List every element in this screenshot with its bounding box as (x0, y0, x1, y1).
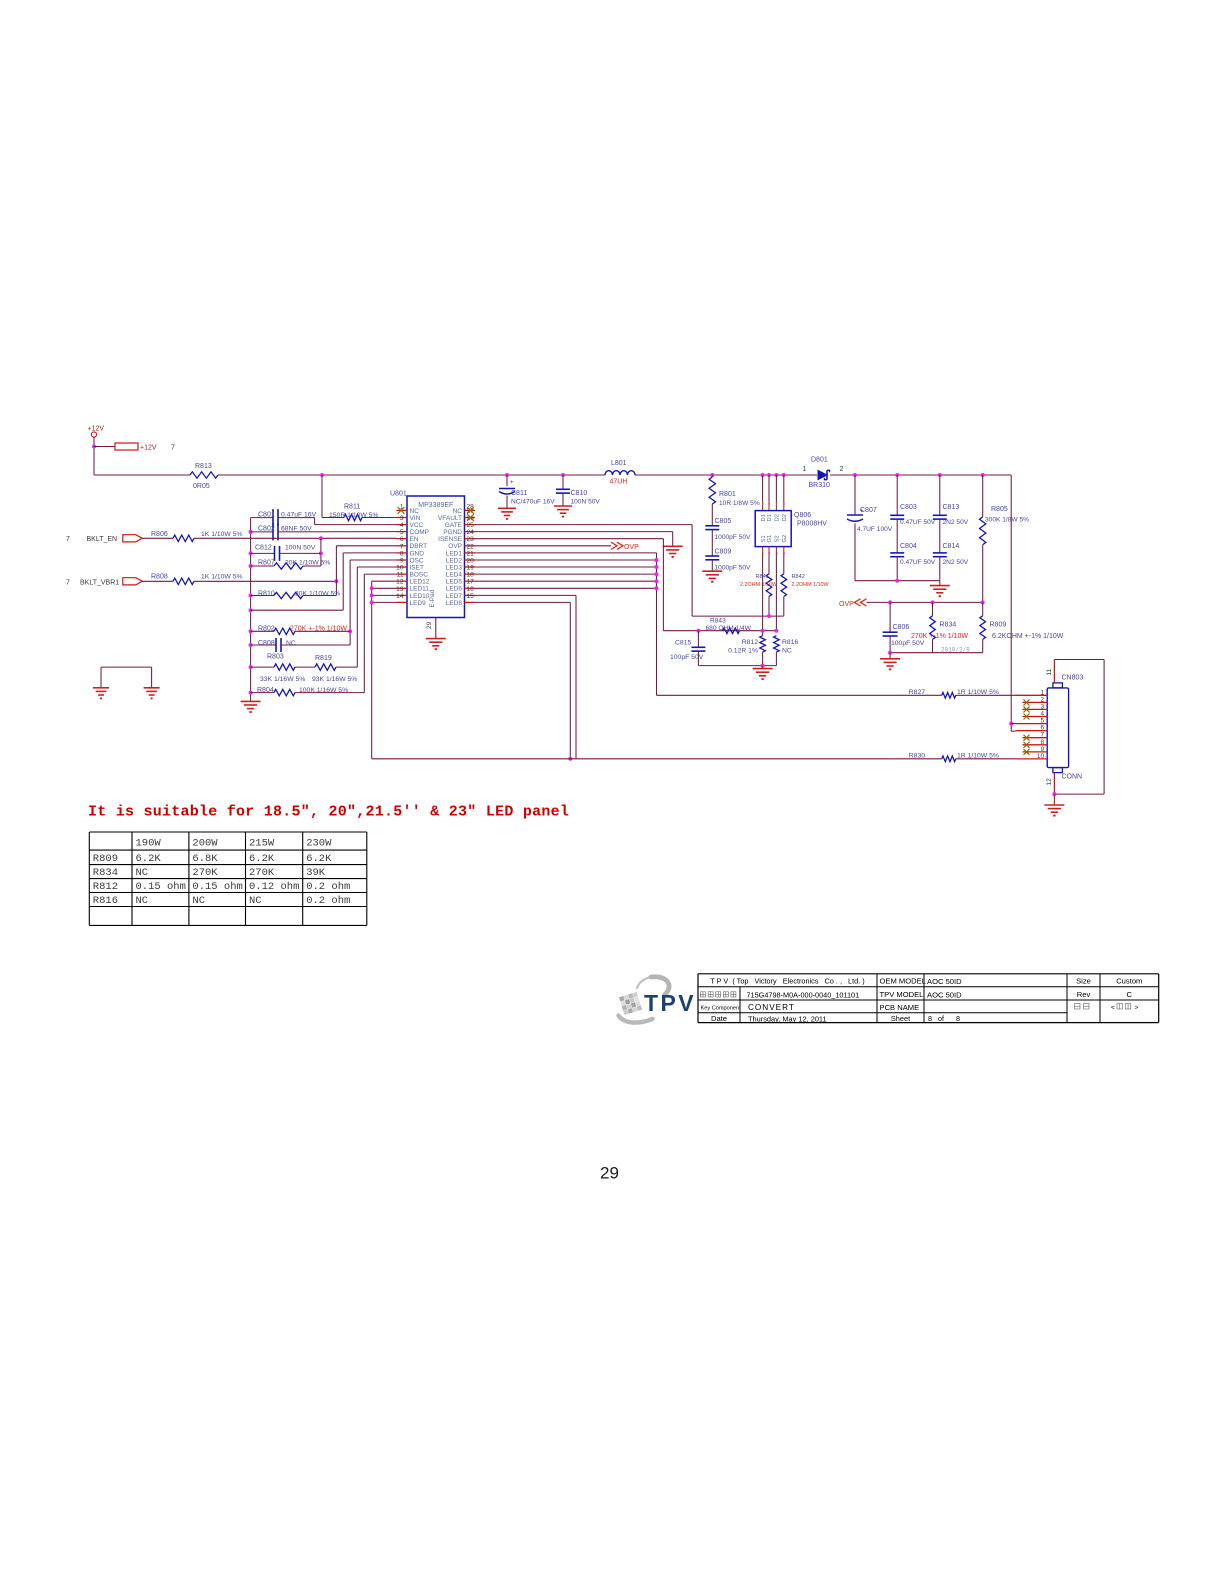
svg-text:C: C (1127, 990, 1133, 999)
svg-text:33K 1/16W 5%: 33K 1/16W 5% (260, 676, 305, 683)
svg-text:E-Pad: E-Pad (429, 589, 436, 607)
svg-text:16: 16 (467, 586, 475, 593)
svg-text:R804: R804 (257, 687, 274, 694)
svg-text:R834: R834 (93, 867, 118, 879)
svg-text:TPV MODEL: TPV MODEL (880, 990, 924, 999)
svg-text:6: 6 (1040, 725, 1044, 732)
svg-text:6.2K: 6.2K (306, 853, 332, 865)
svg-text:2N2 50V: 2N2 50V (943, 519, 969, 526)
svg-text:680 OHM 1/4W: 680 OHM 1/4W (706, 625, 752, 632)
svg-text:7: 7 (1040, 732, 1044, 739)
svg-text:R805: R805 (991, 506, 1008, 513)
svg-text:25: 25 (467, 522, 475, 529)
svg-text:R809: R809 (93, 853, 118, 865)
svg-text:R819: R819 (315, 655, 332, 662)
svg-text:Key Component: Key Component (701, 1005, 742, 1011)
svg-text:10: 10 (1037, 753, 1045, 760)
svg-text:MP3389EF: MP3389EF (418, 502, 453, 509)
svg-text:R816: R816 (93, 895, 118, 907)
svg-text:R809: R809 (990, 622, 1007, 629)
svg-text:+12V: +12V (88, 426, 105, 433)
svg-text:BKLT_EN: BKLT_EN (87, 536, 118, 543)
svg-text:LED9: LED9 (410, 600, 427, 607)
svg-text:R843: R843 (710, 618, 726, 625)
svg-text:R812: R812 (742, 639, 758, 646)
svg-text:VFAULT: VFAULT (438, 515, 462, 522)
svg-text:C804: C804 (900, 543, 917, 550)
svg-text:LED8: LED8 (446, 600, 463, 607)
svg-text:EN: EN (410, 536, 419, 543)
svg-text:190W: 190W (136, 838, 162, 850)
svg-text:R810: R810 (258, 591, 275, 598)
svg-text:T P V ( Top Victory Elect: T P V ( Top Victory Electronics Co . , L… (710, 977, 864, 986)
svg-text:G1: G1 (767, 535, 773, 543)
svg-text:1: 1 (1040, 689, 1044, 696)
svg-text:>: > (1135, 1005, 1139, 1012)
svg-text:715G4798-M0A-000-0040_101101: 715G4798-M0A-000-0040_101101 (747, 991, 860, 1000)
svg-text:270K: 270K (249, 867, 275, 879)
svg-text:C814: C814 (943, 543, 960, 550)
svg-text:13: 13 (396, 586, 404, 593)
svg-text:150R 1/10W 5%: 150R 1/10W 5% (329, 512, 379, 519)
svg-text:LED11: LED11 (410, 586, 430, 593)
svg-text:R801: R801 (719, 491, 736, 498)
svg-text:R808: R808 (151, 574, 168, 581)
svg-text:R803: R803 (267, 654, 284, 661)
svg-text:300K 1/8W 5%: 300K 1/8W 5% (985, 517, 1029, 524)
svg-text:LED10: LED10 (410, 593, 430, 600)
svg-text:+12V: +12V (140, 445, 157, 452)
svg-text:5: 5 (1040, 718, 1044, 725)
svg-text:11: 11 (1046, 668, 1053, 675)
svg-text:D1: D1 (761, 514, 767, 521)
svg-text:12: 12 (396, 579, 404, 586)
svg-text:270K +-1% 1/10W: 270K +-1% 1/10W (911, 633, 968, 640)
svg-text:5: 5 (762, 501, 765, 506)
svg-text:+: + (510, 480, 514, 486)
svg-text:39K: 39K (306, 867, 326, 879)
svg-text:Size: Size (1076, 977, 1091, 986)
svg-text:20: 20 (467, 558, 475, 565)
svg-text:GND: GND (410, 550, 425, 557)
svg-text:LED1: LED1 (446, 550, 463, 557)
svg-text:U801: U801 (390, 491, 407, 498)
svg-text:TPV: TPV (644, 990, 696, 1016)
svg-text:D2: D2 (782, 514, 788, 521)
svg-text:15: 15 (467, 593, 475, 600)
svg-text:22: 22 (467, 543, 475, 550)
svg-text:1R 1/10W 5%: 1R 1/10W 5% (957, 753, 999, 760)
svg-text:L801: L801 (611, 460, 627, 467)
svg-text:93K 1/16W 5%: 93K 1/16W 5% (312, 676, 357, 683)
svg-text:OEM MODEL: OEM MODEL (880, 977, 926, 986)
svg-text:4: 4 (1040, 711, 1044, 718)
svg-text:DBRT: DBRT (410, 543, 428, 550)
svg-text:OVP: OVP (448, 543, 462, 550)
svg-text:LED6: LED6 (446, 586, 463, 593)
svg-text:ISENSE: ISENSE (438, 536, 463, 543)
svg-text:20K 1/10W 5%: 20K 1/10W 5% (295, 591, 340, 598)
svg-text:8: 8 (783, 501, 786, 506)
svg-text:VIN: VIN (410, 515, 421, 522)
svg-text:C808: C808 (258, 640, 275, 647)
svg-text:7: 7 (400, 543, 404, 550)
svg-text:14: 14 (396, 593, 404, 600)
svg-text:C803: C803 (900, 504, 917, 511)
svg-text:R842: R842 (792, 574, 805, 580)
svg-text:LED5: LED5 (446, 579, 463, 586)
svg-text:PCB NAME: PCB NAME (880, 1003, 920, 1012)
svg-text:C815: C815 (675, 640, 691, 647)
svg-text:C801: C801 (258, 512, 275, 519)
svg-text:Q806: Q806 (794, 512, 811, 519)
svg-text:215W: 215W (249, 838, 275, 850)
svg-text:VCC: VCC (410, 522, 424, 529)
svg-text:2.2OHM 1/10W: 2.2OHM 1/10W (740, 582, 778, 588)
svg-text:0.2 ohm: 0.2 ohm (306, 895, 350, 907)
svg-text:C806: C806 (893, 624, 910, 631)
svg-text:270K: 270K (192, 867, 218, 879)
svg-text:R811: R811 (344, 504, 360, 511)
svg-text:NC: NC (136, 895, 149, 907)
svg-text:COMP: COMP (410, 529, 430, 536)
svg-text:100N 50V: 100N 50V (285, 545, 316, 552)
svg-text:9: 9 (400, 558, 404, 565)
svg-text:R841: R841 (756, 574, 769, 580)
svg-text:CN803: CN803 (1062, 675, 1084, 682)
svg-text:6: 6 (400, 536, 404, 543)
svg-text:0.12 ohm: 0.12 ohm (249, 881, 299, 893)
svg-text:R816: R816 (782, 639, 798, 646)
svg-text:20K 1/10W 5%: 20K 1/10W 5% (285, 560, 330, 567)
svg-text:0.2 ohm: 0.2 ohm (306, 881, 350, 893)
svg-text:12: 12 (1046, 778, 1053, 786)
svg-text:ISET: ISET (410, 564, 424, 571)
svg-text:G2: G2 (782, 535, 788, 543)
svg-text:BR310: BR310 (809, 482, 831, 489)
svg-text:1: 1 (803, 466, 807, 473)
svg-text:PGND: PGND (443, 529, 462, 536)
svg-text:24: 24 (467, 529, 475, 536)
svg-text:1000pF 50V: 1000pF 50V (715, 534, 752, 541)
svg-text:LED12: LED12 (410, 579, 430, 586)
svg-text:NC: NC (410, 508, 420, 515)
svg-text:29: 29 (426, 621, 433, 629)
svg-text:OSC: OSC (410, 557, 424, 564)
svg-text:CONN: CONN (1062, 774, 1083, 781)
svg-text:AOC 50ID: AOC 50ID (927, 977, 962, 986)
svg-text:R827: R827 (909, 689, 925, 696)
svg-text:D801: D801 (811, 457, 828, 464)
svg-text:OVP: OVP (624, 544, 639, 551)
svg-text:1K 1/10W 5%: 1K 1/10W 5% (201, 531, 243, 538)
svg-text:0.12R 1%: 0.12R 1% (728, 648, 758, 655)
svg-text:LED7: LED7 (446, 593, 463, 600)
svg-text:2N2 50V: 2N2 50V (943, 559, 969, 566)
svg-text:R806: R806 (151, 531, 168, 538)
svg-text:C813: C813 (943, 504, 960, 511)
svg-text:7: 7 (66, 580, 70, 587)
svg-text:0.47UF 50V: 0.47UF 50V (900, 519, 936, 526)
svg-text:Custom: Custom (1116, 977, 1142, 986)
svg-text:8: 8 (1040, 739, 1044, 746)
svg-text:C805: C805 (715, 518, 732, 525)
svg-text:NC: NC (453, 508, 463, 515)
svg-text:NC: NC (136, 867, 149, 879)
svg-text:11: 11 (397, 572, 404, 579)
svg-text:6.2KOHM +-1% 1/10W: 6.2KOHM +-1% 1/10W (992, 633, 1064, 640)
svg-text:2: 2 (840, 466, 844, 473)
svg-text:GATE: GATE (445, 522, 463, 529)
svg-text:Thursday, May 12, 2011: Thursday, May 12, 2011 (748, 1014, 827, 1023)
svg-text:6: 6 (768, 501, 771, 506)
svg-text:7: 7 (171, 445, 175, 452)
svg-text:0.15 ohm: 0.15 ohm (136, 881, 186, 893)
svg-text:6.2K: 6.2K (249, 853, 275, 865)
svg-text:4: 4 (400, 522, 404, 529)
svg-text:7: 7 (775, 501, 778, 506)
svg-text:Date: Date (711, 1014, 727, 1023)
svg-text:CONVERT: CONVERT (748, 1003, 795, 1012)
svg-text:D2: D2 (775, 514, 781, 521)
svg-text:1K 1/10W 5%: 1K 1/10W 5% (201, 574, 243, 581)
svg-text:0.47UF 50V: 0.47UF 50V (900, 559, 936, 566)
svg-text:200W: 200W (192, 838, 218, 850)
svg-text:Rev: Rev (1077, 990, 1091, 999)
svg-text:R830: R830 (909, 753, 925, 760)
svg-text:10: 10 (396, 565, 404, 572)
svg-text:10R 1/8W 5%: 10R 1/8W 5% (719, 500, 760, 507)
svg-text:R813: R813 (195, 463, 212, 470)
svg-text:C811: C811 (511, 490, 527, 497)
svg-text:1R 1/10W 5%: 1R 1/10W 5% (957, 689, 999, 696)
svg-text:<: < (1111, 1005, 1115, 1012)
svg-text:7: 7 (66, 536, 70, 543)
svg-text:LED4: LED4 (446, 572, 463, 579)
svg-text:R807: R807 (258, 560, 275, 567)
svg-text:C812: C812 (255, 545, 272, 552)
svg-text:It is suitable for 18.5", 20",: It is suitable for 18.5", 20",21.5'' & 2… (88, 804, 569, 821)
svg-text:S2: S2 (775, 535, 781, 542)
svg-text:Sheet: Sheet (891, 1014, 910, 1023)
svg-text:0.47uF 16V: 0.47uF 16V (281, 512, 317, 519)
svg-text:270K +-1% 1/10W: 270K +-1% 1/10W (290, 626, 347, 633)
svg-text:68NF 50V: 68NF 50V (281, 526, 312, 533)
svg-text:8: 8 (400, 550, 404, 557)
svg-text:S1: S1 (761, 535, 767, 542)
svg-text:47UH: 47UH (610, 479, 628, 486)
svg-text:19: 19 (467, 565, 475, 572)
svg-text:0.15 ohm: 0.15 ohm (192, 881, 242, 893)
svg-text:0R05: 0R05 (193, 483, 210, 490)
svg-text:OVP: OVP (839, 601, 854, 608)
svg-text:6.2K: 6.2K (136, 853, 162, 865)
svg-text:R812: R812 (93, 881, 118, 893)
svg-text:NC: NC (782, 648, 792, 655)
svg-text:18: 18 (467, 572, 475, 579)
svg-text:4.7UF 100V: 4.7UF 100V (857, 526, 893, 533)
svg-text:8 of 8: 8 of 8 (928, 1014, 960, 1023)
svg-text:NC: NC (192, 895, 205, 907)
svg-text:D1: D1 (767, 514, 773, 521)
svg-text:BOSC: BOSC (410, 572, 429, 579)
svg-text:23: 23 (467, 536, 475, 543)
svg-text:2: 2 (1040, 696, 1044, 703)
svg-text:21: 21 (467, 550, 475, 557)
svg-text:NC/470uF 16V: NC/470uF 16V (511, 499, 555, 506)
svg-text:230W: 230W (306, 838, 332, 850)
svg-text:2.2OHM 1/10W: 2.2OHM 1/10W (792, 582, 830, 588)
svg-text:100pF 50V: 100pF 50V (891, 640, 925, 647)
svg-text:5: 5 (400, 529, 404, 536)
svg-text:C802: C802 (258, 526, 275, 533)
svg-text:NC: NC (286, 640, 296, 647)
svg-text:C809: C809 (715, 549, 732, 556)
svg-text:LED3: LED3 (446, 564, 463, 571)
svg-text:100K 1/16W 5%: 100K 1/16W 5% (299, 687, 348, 694)
svg-text:P8008HV: P8008HV (797, 521, 827, 528)
svg-text:9: 9 (1040, 746, 1044, 753)
svg-text:3: 3 (400, 515, 404, 522)
svg-text:C810: C810 (571, 490, 588, 497)
svg-text:100N 50V: 100N 50V (571, 499, 601, 506)
svg-text:C807: C807 (860, 507, 877, 514)
svg-text:AOC 50ID: AOC 50ID (927, 991, 962, 1000)
svg-text:LED2: LED2 (446, 557, 463, 564)
svg-text:BKLT_VBR1: BKLT_VBR1 (80, 580, 119, 587)
svg-text:17: 17 (467, 579, 475, 586)
svg-text:29: 29 (600, 1164, 619, 1183)
svg-text:6.8K: 6.8K (192, 853, 218, 865)
svg-text:NC: NC (249, 895, 262, 907)
svg-text:R802: R802 (258, 626, 275, 633)
svg-text:R834: R834 (940, 622, 957, 629)
svg-text:3: 3 (1040, 703, 1044, 710)
